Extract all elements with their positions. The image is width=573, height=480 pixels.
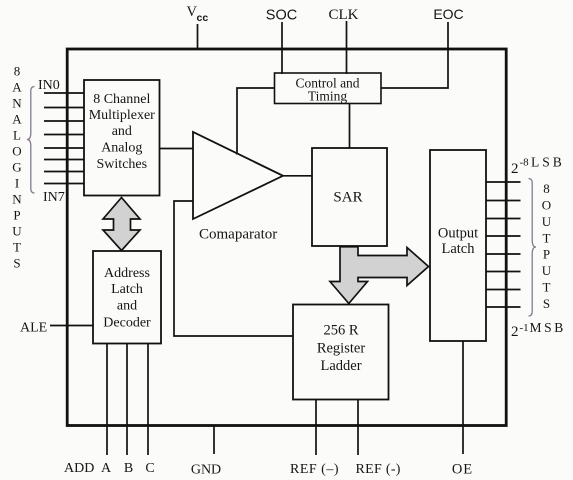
svg-text:and: and [117, 299, 137, 314]
wire input line 4 [44, 134, 84, 136]
wire 256R ladder feedback to comparator [174, 201, 293, 336]
wire output line 7 [486, 289, 521, 291]
svg-text:-8: -8 [520, 157, 530, 169]
svg-text:Ladder: Ladder [320, 358, 361, 374]
svg-text:8: 8 [543, 181, 550, 196]
svg-text:T: T [13, 239, 21, 254]
wire input IN0 [44, 92, 84, 94]
wire input line 6 [44, 159, 84, 161]
block SAR [312, 148, 387, 246]
svg-text:O: O [12, 143, 21, 158]
wire REF(-) [357, 400, 359, 456]
wire input line 7 [44, 171, 84, 173]
block 8 Channel Multiplexer and Analog Switches [84, 80, 160, 196]
label Vcc [187, 4, 209, 24]
wire output line 4 [486, 235, 521, 237]
wire input line 2 [44, 107, 84, 109]
svg-text:S: S [13, 255, 20, 270]
svg-text:Comaparator: Comaparator [199, 227, 277, 243]
label 8 OUTPUTS (vertical) [542, 181, 552, 311]
svg-text:U: U [12, 223, 22, 238]
svg-text:GND: GND [191, 463, 221, 478]
svg-text:A: A [101, 461, 112, 476]
wire Control and Timing left to comparator top [237, 88, 275, 155]
wire ALE to address latch [50, 325, 93, 327]
wire input IN7 [44, 183, 84, 185]
svg-text:2: 2 [511, 324, 519, 340]
svg-text:SOC: SOC [266, 8, 297, 24]
wire output line 3 [486, 218, 521, 220]
svg-text:256 R: 256 R [323, 323, 358, 339]
wire output line 2 [486, 200, 521, 202]
svg-text:Address: Address [104, 266, 150, 281]
label 2^-1 MSB [511, 320, 566, 340]
wire multiplexer to comparator [160, 148, 194, 150]
wire CLK to Control and Timing [346, 21, 348, 74]
wire input line 3 [44, 120, 84, 122]
svg-text:Decoder: Decoder [103, 316, 151, 331]
svg-text:IN0: IN0 [38, 78, 60, 93]
svg-text:Output: Output [438, 226, 478, 242]
svg-text:A: A [12, 79, 22, 94]
svg-text:P: P [13, 207, 20, 222]
wire address B [126, 344, 128, 456]
svg-text:C: C [145, 461, 154, 476]
fat arrow SAR to 256R ladder and output latch [330, 247, 429, 304]
svg-text:SAR: SAR [333, 190, 362, 206]
block 256 R Register Ladder [293, 305, 389, 400]
svg-text:P: P [543, 247, 550, 262]
svg-text:Analog: Analog [101, 141, 142, 156]
svg-text:2: 2 [511, 161, 519, 177]
wire GND [213, 426, 215, 454]
svg-text:REF (–): REF (–) [290, 462, 339, 477]
wire address A [106, 344, 108, 456]
svg-text:N: N [12, 191, 22, 206]
wire OE [462, 341, 464, 454]
wire Vcc to top edge [197, 24, 199, 49]
wire output line 6 [486, 271, 521, 273]
wire output line 8 [486, 306, 521, 308]
wire Control and Timing to SAR [349, 104, 351, 149]
svg-text:MSB: MSB [530, 320, 566, 335]
svg-text:T: T [543, 230, 551, 245]
svg-text:Latch: Latch [111, 282, 143, 297]
svg-text:B: B [124, 461, 133, 476]
chip outer boundary box [67, 49, 506, 426]
svg-text:Timing: Timing [308, 89, 348, 104]
svg-text:U: U [542, 263, 552, 278]
wire input line 5 [44, 147, 84, 149]
svg-text:CLK: CLK [329, 7, 359, 23]
svg-text:U: U [542, 214, 552, 229]
svg-text:T: T [543, 280, 551, 295]
svg-text:8 Channel: 8 Channel [93, 92, 150, 107]
svg-text:L: L [13, 127, 21, 142]
wire comparator output to SAR [283, 175, 312, 177]
wire address C [147, 344, 149, 456]
brace right of output lines [529, 179, 537, 317]
svg-text:Switches: Switches [97, 157, 148, 172]
label 8 ANALOG INPUTS (vertical) [12, 63, 22, 270]
label ADD A B C [64, 461, 155, 476]
op-amp comparator [193, 132, 283, 219]
svg-text:I: I [15, 175, 19, 190]
svg-text:Latch: Latch [441, 241, 475, 257]
svg-text:ADD: ADD [64, 461, 94, 476]
svg-text:-1: -1 [520, 322, 529, 334]
svg-text:IN7: IN7 [43, 190, 65, 205]
svg-text:cc: cc [197, 12, 209, 24]
block Control and Timing [275, 73, 382, 104]
svg-text:LSB: LSB [531, 155, 565, 170]
svg-text:OE: OE [452, 462, 473, 478]
wire SOC to Control and Timing [281, 22, 283, 74]
svg-text:8: 8 [14, 63, 21, 78]
svg-text:Register: Register [317, 341, 365, 357]
svg-text:G: G [12, 159, 21, 174]
wire EOC down then left to Control and Timing [381, 22, 448, 88]
double arrow multiplexer to address latch [103, 198, 140, 251]
svg-text:Multiplexer: Multiplexer [89, 108, 155, 123]
block Address Latch and Decoder [93, 251, 161, 344]
svg-text:and: and [112, 124, 132, 139]
wire REF(+) [315, 400, 317, 456]
wire output line 5 [486, 253, 521, 255]
wire output line 1 [486, 181, 521, 183]
svg-text:N: N [12, 95, 22, 110]
block Output Latch [430, 150, 486, 341]
svg-text:REF (-): REF (-) [356, 462, 401, 477]
brace left of input lines [27, 87, 35, 194]
svg-text:ALE: ALE [20, 321, 47, 336]
svg-text:A: A [12, 111, 22, 126]
svg-text:O: O [542, 198, 551, 213]
label 2^-8 LSB [511, 155, 565, 177]
svg-text:S: S [543, 296, 550, 311]
svg-text:EOC: EOC [433, 6, 463, 22]
